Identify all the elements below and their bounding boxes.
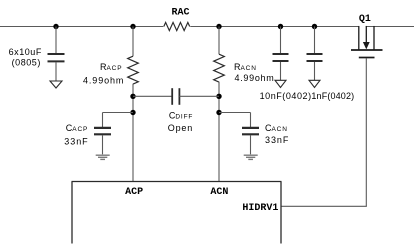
resistor RACN (vertical zigzag)	[214, 54, 225, 82]
svg-text:RACP: RACP	[100, 62, 122, 72]
svg-text:ACP: ACP	[125, 187, 143, 198]
transistor Q1 arrowhead	[363, 42, 370, 49]
node junction dot ACP/CDIFF	[130, 94, 135, 99]
svg-text:CACN: CACN	[265, 123, 288, 133]
wire HIDRV1 to gate	[281, 205, 367, 207]
wire 10nF cap branch upper	[280, 27, 282, 54]
svg-text:CDIFF: CDIFF	[169, 111, 193, 121]
wire top rail left segment	[0, 26, 163, 28]
capacitor CACP plates	[94, 128, 111, 134]
capacitor 6x10uF plates	[48, 54, 65, 61]
svg-text:ACN: ACN	[210, 187, 228, 198]
resistor RACP (vertical zigzag)	[128, 56, 139, 84]
ground (open triangle) under 6x10uF	[50, 81, 62, 88]
transistor Q1 drain lead (bend down from rail)	[358, 26, 360, 50]
IC box right edge	[280, 182, 282, 244]
wire CACN horizontal	[219, 112, 251, 114]
svg-text:10nF(0402): 10nF(0402)	[260, 91, 312, 101]
wire 10nF cap branch lower	[280, 62, 282, 80]
wire 1nF cap branch lower	[314, 62, 316, 80]
wire CDIFF right	[179, 95, 219, 97]
node junction dot ACN/CDIFF	[216, 94, 221, 99]
resistor RAC (horizontal zigzag)	[164, 22, 190, 30]
wire RACP branch lower / ACP pin wire	[132, 84, 134, 182]
wire Q1 gate lead down	[365, 58, 367, 206]
svg-text:RACN: RACN	[234, 62, 257, 72]
wire bulk cap branch lower	[55, 62, 57, 80]
svg-text:HIDRV1: HIDRV1	[242, 203, 278, 214]
wire CACP horizontal	[103, 112, 134, 114]
wire RACN branch lower / ACN pin wire	[218, 82, 220, 182]
svg-text:RAC: RAC	[172, 8, 190, 19]
svg-text:6x10uF: 6x10uF	[9, 47, 42, 57]
transistor Q1 gate bar	[359, 57, 375, 59]
wire top rail mid segment	[190, 26, 358, 28]
ground (3-bar) under CACP	[96, 155, 110, 159]
transistor Q1 arrow lead	[365, 26, 367, 43]
node junction dot ACP/CACP	[130, 110, 135, 115]
wire CACN vertical upper	[250, 113, 252, 128]
svg-text:(0805): (0805)	[12, 58, 41, 68]
svg-text:33nF: 33nF	[265, 135, 289, 145]
wire RACP branch upper	[132, 27, 134, 57]
ground (open triangle) under 10nF	[275, 80, 286, 87]
svg-text:Q1: Q1	[359, 14, 371, 25]
wire CACP vertical upper	[102, 113, 104, 128]
ground (open triangle) under 1nF	[309, 80, 320, 87]
wire RACN branch upper	[218, 27, 220, 55]
capacitor 1nF plates	[307, 54, 323, 61]
IC box top edge	[72, 181, 282, 183]
node junction dot on rail at RACP branch	[130, 24, 135, 29]
node junction dot on rail at bulk cap	[53, 24, 58, 29]
node junction dot ACN/CACN	[216, 110, 221, 115]
node junction dot on rail at 10nF cap	[278, 24, 283, 29]
capacitor CACN plates	[242, 128, 259, 134]
wire CDIFF left	[133, 95, 172, 97]
wire bulk cap branch upper	[55, 27, 57, 54]
transistor Q1 channel bar	[351, 49, 383, 51]
wire CACP vertical lower	[102, 135, 104, 154]
svg-text:4.99ohm: 4.99ohm	[235, 73, 275, 83]
svg-text:33nF: 33nF	[64, 136, 88, 146]
svg-text:Open: Open	[168, 123, 193, 133]
IC box left edge	[71, 182, 73, 244]
wire top rail right segment	[366, 26, 414, 28]
transistor Q1 source lead vertical	[373, 26, 375, 50]
capacitor 10nF plates	[273, 54, 289, 61]
ground (3-bar) under CACN	[244, 155, 258, 159]
svg-text:CACP: CACP	[66, 123, 88, 133]
node junction dot on rail at 1nF cap	[312, 24, 317, 29]
capacitor CDIFF plates	[172, 88, 179, 105]
node junction dot on rail at RACN branch	[216, 24, 221, 29]
wire 1nF cap branch upper	[314, 27, 316, 54]
svg-text:4.99ohm: 4.99ohm	[83, 75, 124, 85]
svg-text:1nF(0402): 1nF(0402)	[311, 91, 354, 101]
wire CACN vertical lower	[250, 135, 252, 154]
